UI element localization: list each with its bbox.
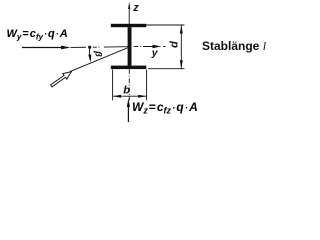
angle arc beta (88, 49, 91, 60)
dimension b: left extension line (112, 70, 114, 101)
label Stablaenge l (202, 39, 266, 54)
formula Wy = cfy * q * A (7, 28, 68, 42)
axis z arrowhead (128, 2, 130, 9)
node: arc anchor dot (88, 46, 91, 49)
I-section: bottom flange (111, 66, 147, 70)
svg-text:y: y (151, 47, 159, 59)
dimension b: right extension line (146, 70, 148, 101)
wire: centerline dot (98, 46, 99, 48)
dimension d: top extension line (146, 24, 184, 26)
I-section: top flange (111, 24, 147, 27)
dimension d: bottom extension line (148, 68, 185, 70)
wire: centerline solid segment left of dot (71, 46, 87, 48)
axis y centerline dot (140, 46, 141, 48)
dimension b: line (113, 95, 147, 97)
wind arrow (hollow) (51, 72, 72, 87)
force arrow Wz (shaft) (127, 104, 129, 122)
wire: centerline solid segment to web (104, 46, 130, 48)
axis y arrowhead (153, 45, 162, 48)
axis y centerline dash (134, 46, 139, 48)
angle arc arrowhead (88, 55, 91, 63)
formula Wz = cfz * q * A (132, 100, 198, 116)
wire: centerline dash (93, 46, 97, 48)
force arrow Wy (shaft) (22, 47, 63, 49)
axis y centerline dash after arrow (163, 45, 166, 47)
dimension b: right arrowhead (138, 95, 146, 98)
svg-text:b: b (123, 84, 130, 96)
wire: wind direction line (70, 47, 130, 72)
axis y arrow shaft (143, 45, 155, 47)
dimension d: line (180, 25, 182, 68)
force arrow Wz (head) (127, 98, 130, 107)
dimension b: left arrowhead (113, 95, 121, 98)
wire: centerline below section (dash-dot) (128, 69, 130, 100)
I-section: web (128, 27, 132, 65)
svg-text:β: β (94, 50, 104, 57)
axis z (line) (128, 5, 130, 24)
dimension d: lower arrowhead (180, 60, 183, 68)
force arrow Wy (head) (61, 46, 71, 50)
svg-text:z: z (132, 2, 139, 14)
dimension d: upper arrowhead (180, 25, 183, 33)
svg-text:d: d (169, 41, 181, 48)
